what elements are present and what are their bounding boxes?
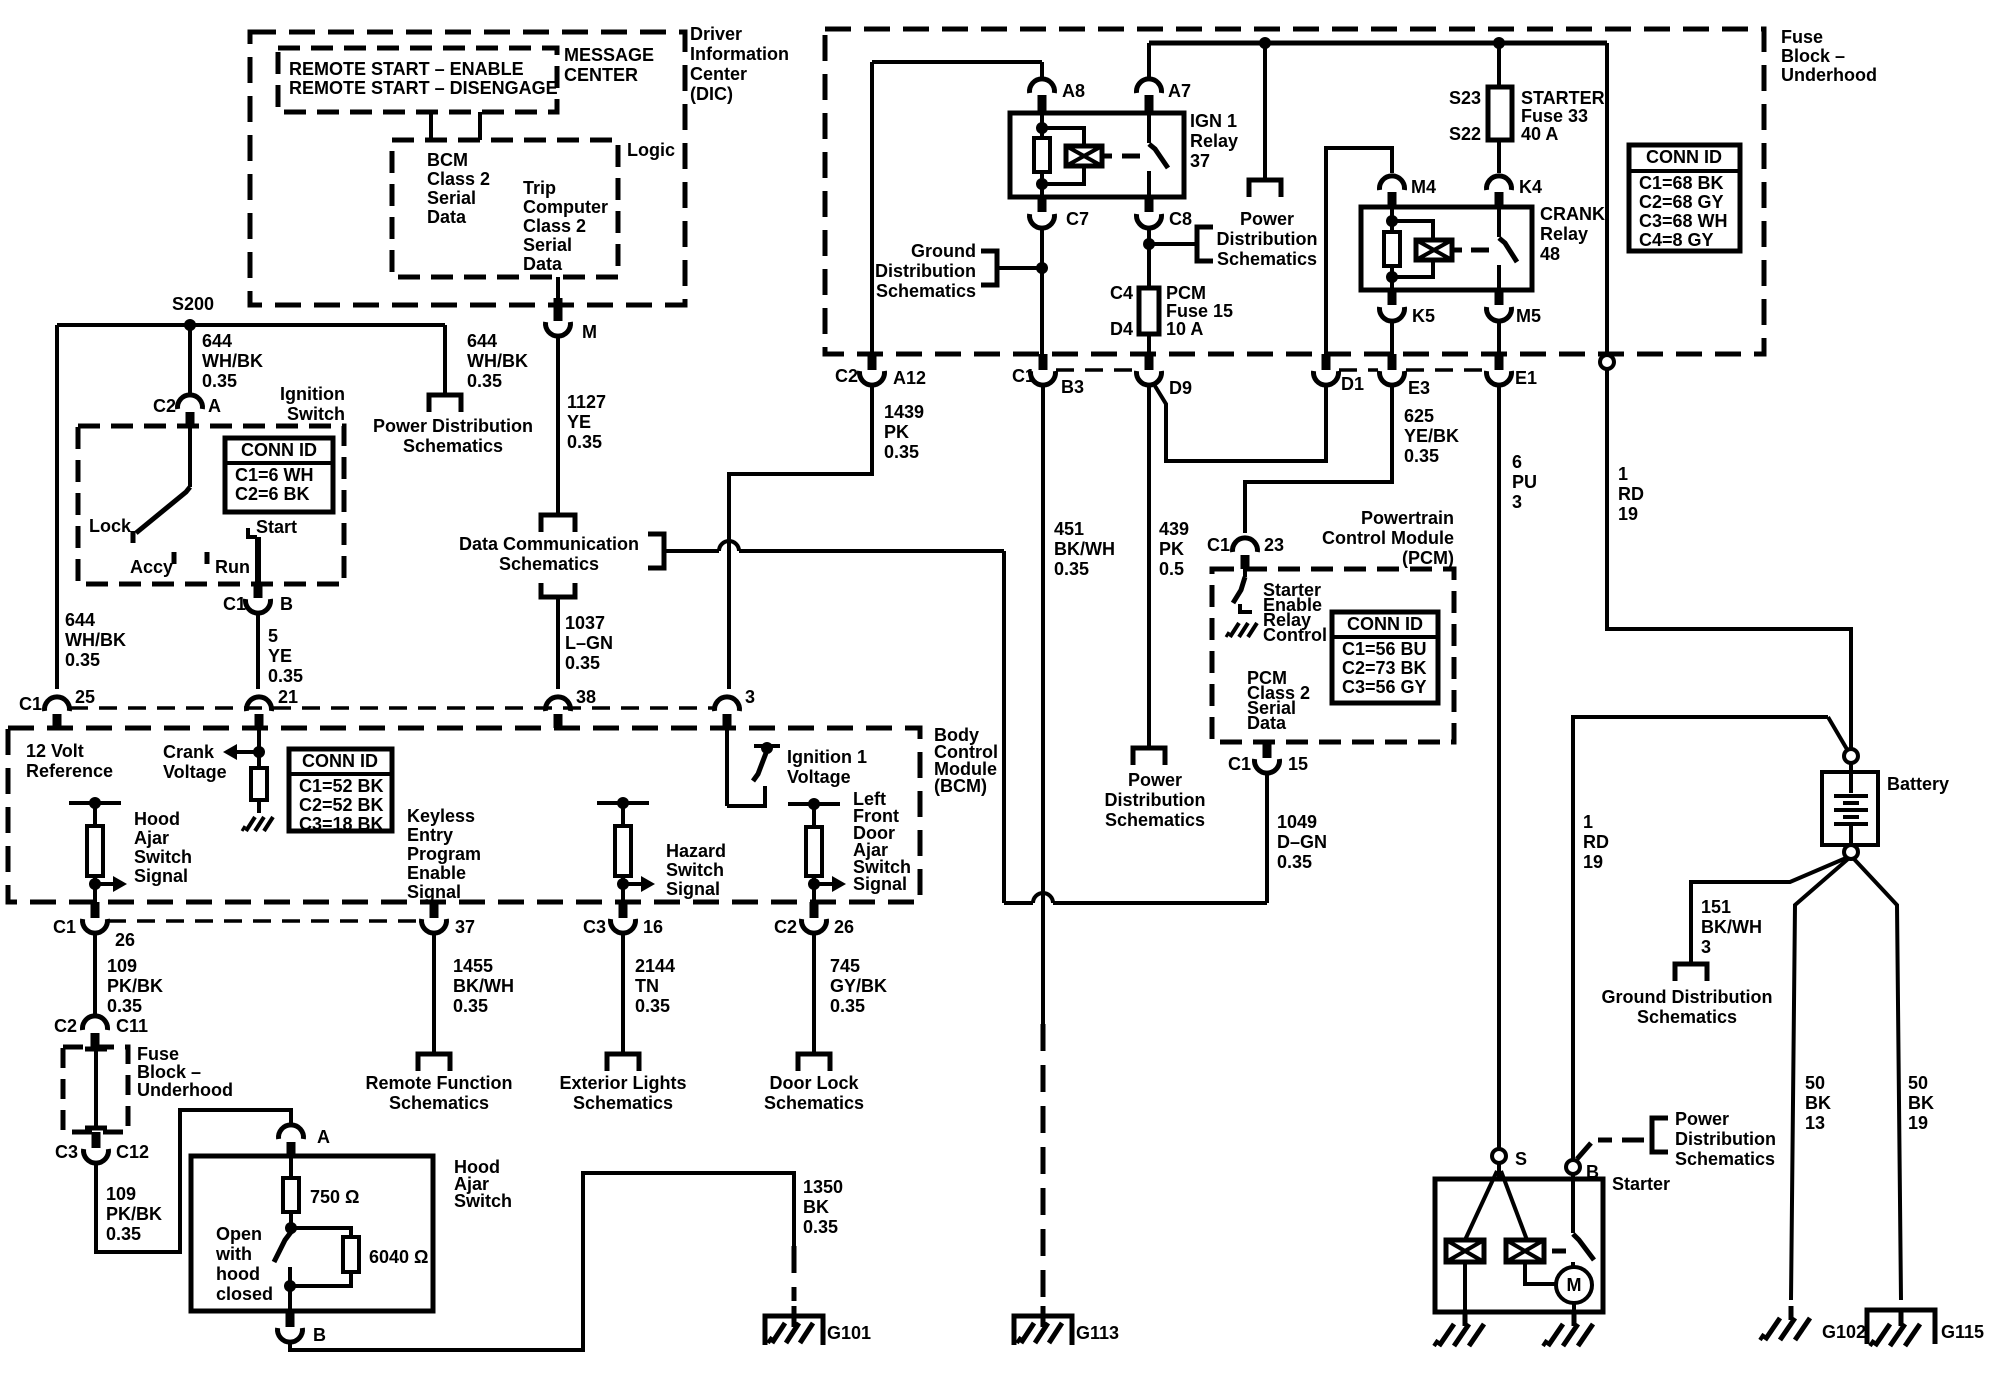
wire 1 RD left path to starter B — [1573, 717, 1828, 1160]
label 3 — [745, 687, 755, 707]
wire ignition switch common — [188, 426, 192, 487]
label A8 — [1062, 81, 1085, 101]
label 38 — [576, 687, 596, 707]
reference fork door lock — [798, 1054, 830, 1071]
label Powertrain Control Module PCM — [1322, 508, 1454, 568]
svg-text:12 Volt: 12 Volt — [26, 741, 84, 761]
hazard terminal bar — [597, 797, 649, 809]
svg-text:25: 25 — [75, 687, 95, 707]
svg-text:Ground Distribution: Ground Distribution — [1602, 987, 1773, 1007]
label Ground Distribution Schematics C7 — [875, 241, 976, 301]
label Door Lock Schematics — [764, 1073, 864, 1113]
wire ground dist ref — [997, 266, 1042, 270]
svg-text:G101: G101 — [827, 1323, 871, 1343]
svg-text:Voltage: Voltage — [163, 762, 227, 782]
svg-text:Run: Run — [215, 557, 250, 577]
reference dashes power dist starter — [1577, 1140, 1644, 1159]
ign1 link dash — [1122, 154, 1140, 159]
svg-text:Schematics: Schematics — [499, 554, 599, 574]
wire lf door internal lower — [812, 876, 816, 902]
label K5 — [1412, 306, 1435, 326]
connector row dashes BCM bottom — [108, 919, 421, 923]
label B starter — [1586, 1162, 1599, 1182]
label 644 WH/BK 0.35 at S200 — [202, 331, 263, 391]
connector C2 C11 entry — [83, 1016, 108, 1047]
label REMOTE START - DISENGAGE — [289, 78, 558, 98]
left front door terminal bar — [788, 798, 840, 810]
svg-text:Reference: Reference — [26, 761, 113, 781]
svg-text:644: 644 — [202, 331, 232, 351]
svg-text:PK/BK: PK/BK — [107, 976, 163, 996]
wire 745 GY/BK — [812, 935, 816, 1053]
svg-text:13: 13 — [1805, 1113, 1825, 1133]
svg-text:Schematics: Schematics — [403, 436, 503, 456]
battery cell plates — [1834, 763, 1868, 845]
svg-text:Signal: Signal — [134, 866, 188, 886]
wire ignition1 voltage from 3 — [725, 728, 729, 806]
wire class2 bus vertical — [1002, 551, 1006, 903]
svg-text:644: 644 — [65, 610, 95, 630]
resistor crank voltage — [251, 768, 267, 800]
reference fork power distribution schematics — [429, 395, 461, 412]
svg-text:B: B — [313, 1325, 326, 1345]
wire 644 WH/BK down to C1 25 — [55, 325, 59, 689]
label A hood — [317, 1127, 330, 1147]
label D4 — [1110, 319, 1133, 339]
connector row dashes BCM top — [70, 706, 714, 710]
svg-text:RD: RD — [1618, 484, 1644, 504]
ign1 coil branch — [1042, 128, 1084, 184]
hood switch lower contact — [284, 1267, 296, 1292]
connector A8 — [1030, 79, 1055, 113]
box REMOTE START message — [278, 48, 557, 112]
svg-text:0.35: 0.35 — [453, 996, 488, 1016]
wire 6 PU down to starter S — [1497, 386, 1501, 1149]
svg-text:C1=68 BK: C1=68 BK — [1639, 173, 1724, 193]
svg-text:A8: A8 — [1062, 81, 1085, 101]
wire A7 drop — [1147, 43, 1151, 77]
svg-text:Driver: Driver — [690, 24, 742, 44]
svg-text:Open: Open — [216, 1224, 262, 1244]
reference fork exterior lights — [607, 1054, 639, 1071]
svg-text:3: 3 — [1512, 492, 1522, 512]
hood ajar signal arrow — [89, 876, 127, 892]
connector row dashes fuse block D1-E3 — [1339, 368, 1378, 372]
component box Battery — [1822, 772, 1878, 845]
wire C7 to B3 — [1040, 230, 1044, 354]
label E1 — [1515, 368, 1537, 388]
connector C3 C12 exit — [84, 1132, 109, 1163]
wire S stub — [1497, 1163, 1501, 1179]
svg-text:S22: S22 — [1449, 124, 1481, 144]
crank link dash — [1471, 248, 1489, 253]
svg-text:1037: 1037 — [565, 613, 605, 633]
svg-text:G102: G102 — [1822, 1322, 1866, 1342]
bus wire fuse block top — [1149, 41, 1607, 46]
wire A8 feed horizontal — [872, 60, 1042, 64]
svg-text:439: 439 — [1159, 519, 1189, 539]
wire 1037 L-GN to BCM 38 — [556, 597, 560, 689]
connector C2 26 BCM exit — [802, 902, 827, 933]
svg-text:REMOTE START – ENABLE: REMOTE START – ENABLE — [289, 59, 524, 79]
svg-text:2144: 2144 — [635, 956, 675, 976]
crank link stub — [1452, 248, 1462, 253]
connector E3 — [1380, 354, 1405, 385]
reference fork data comm bottom — [541, 583, 575, 597]
svg-text:Schematics: Schematics — [876, 281, 976, 301]
connector M at DIC exit — [546, 298, 571, 336]
svg-text:0.35: 0.35 — [65, 650, 100, 670]
label Crank Voltage — [163, 742, 227, 782]
label S23 — [1449, 88, 1481, 108]
svg-text:Lock: Lock — [89, 516, 132, 536]
svg-text:0.35: 0.35 — [1054, 559, 1089, 579]
label Hazard Switch Signal — [666, 841, 726, 899]
label 50 BK 19 — [1908, 1073, 1934, 1133]
svg-text:Switch: Switch — [287, 404, 345, 424]
svg-text:Underhood: Underhood — [137, 1080, 233, 1100]
label 644 WH/BK 0.35 right — [467, 331, 528, 391]
wire 50 BK 13 to G102 — [1791, 859, 1848, 1300]
ignition1 voltage fixed bar — [754, 742, 780, 754]
ground crank voltage internal — [242, 817, 273, 831]
wire 644 WH/BK horizontal from left to power dist branch — [57, 323, 445, 327]
label C11 — [116, 1016, 148, 1036]
wire 1455 BK/WH — [432, 935, 436, 1053]
svg-text:Entry: Entry — [407, 825, 453, 845]
wire starter fuse feed — [1493, 37, 1505, 87]
svg-text:Power: Power — [1128, 770, 1182, 790]
wire 1439 PK path — [729, 386, 872, 689]
label 451 BK/WH 0.35 — [1054, 519, 1115, 579]
svg-text:WH/BK: WH/BK — [202, 351, 263, 371]
svg-text:Exterior Lights: Exterior Lights — [559, 1073, 686, 1093]
svg-text:C3=18 BK: C3=18 BK — [299, 814, 384, 834]
svg-text:1: 1 — [1583, 812, 1593, 832]
svg-text:B: B — [280, 594, 293, 614]
svg-text:C1: C1 — [19, 694, 42, 714]
svg-text:0.35: 0.35 — [565, 653, 600, 673]
svg-text:5: 5 — [268, 626, 278, 646]
starter motor feed — [1571, 1262, 1575, 1269]
wire 6040 branch — [291, 1228, 351, 1286]
label 6 PU 3 — [1512, 452, 1537, 512]
label 745 GY/BK 0.35 — [830, 956, 887, 1016]
svg-text:745: 745 — [830, 956, 860, 976]
svg-text:Power: Power — [1675, 1109, 1729, 1129]
starter ground left — [1434, 1312, 1484, 1346]
svg-text:C2: C2 — [835, 366, 858, 386]
connector row dashes fuse block E3-E1 — [1406, 368, 1486, 372]
resistor hazard signal — [615, 826, 631, 876]
label C12 — [116, 1142, 149, 1162]
label 37 — [455, 917, 475, 937]
connector B hood ajar exit — [278, 1311, 303, 1342]
starter solenoid1 to ground — [1463, 1262, 1467, 1312]
label Hood Ajar Switch — [454, 1157, 512, 1211]
svg-text:6040 Ω: 6040 Ω — [369, 1247, 428, 1267]
ground G115 bracket — [1867, 1310, 1935, 1346]
label A7 — [1168, 81, 1191, 101]
crank voltage arrow — [223, 744, 265, 760]
reference fork remote function — [418, 1054, 450, 1071]
connector K4 — [1487, 176, 1512, 207]
conn id box PCM — [1332, 612, 1438, 703]
svg-text:Fuse 33: Fuse 33 — [1521, 106, 1588, 126]
svg-text:Accy: Accy — [130, 557, 173, 577]
label Open with hood closed — [215, 1224, 273, 1304]
relay box IGN 1 — [1010, 113, 1184, 197]
svg-text:BK: BK — [803, 1197, 829, 1217]
label 26 — [115, 930, 135, 950]
starter ground right — [1543, 1312, 1593, 1346]
reference bracket power distribution C8 — [1197, 227, 1213, 261]
svg-text:CONN ID: CONN ID — [241, 440, 317, 460]
label Fuse Block Underhood — [1781, 27, 1877, 85]
hood ajar switch signal terminal bar — [69, 797, 121, 809]
label 23 — [1264, 535, 1284, 555]
label 26b — [834, 917, 854, 937]
svg-text:C2: C2 — [54, 1016, 77, 1036]
label 1127 YE 0.35 — [567, 392, 606, 452]
label CRANK Relay 48 — [1540, 204, 1605, 264]
label C2 at A12 — [835, 366, 858, 386]
connector C1 B ignition switch exit — [246, 584, 271, 613]
label Fuse Block Underhood small — [137, 1044, 233, 1100]
svg-text:YE: YE — [268, 646, 292, 666]
label 12 Volt Reference — [26, 741, 113, 781]
label A — [208, 396, 221, 416]
svg-text:3: 3 — [745, 687, 755, 707]
starter link dash — [1552, 1249, 1566, 1254]
label C7 — [1066, 209, 1089, 229]
ignition1 voltage contact L — [727, 786, 765, 806]
wire crank voltage to ground — [257, 800, 261, 813]
svg-text:Schematics: Schematics — [389, 1093, 489, 1113]
svg-text:Hood: Hood — [134, 809, 180, 829]
wire PCM fuse to D9 — [1147, 334, 1151, 354]
wire power dist fork from bus — [1259, 37, 1271, 180]
label Power Distribution Schematics starter — [1675, 1109, 1776, 1169]
svg-text:C11: C11 — [116, 1016, 148, 1036]
svg-text:C2=6 BK: C2=6 BK — [235, 484, 310, 504]
svg-text:C2=68 GY: C2=68 GY — [1639, 192, 1724, 212]
svg-text:PU: PU — [1512, 472, 1537, 492]
label 750 ohm — [310, 1187, 359, 1207]
svg-text:10 A: 10 A — [1166, 319, 1203, 339]
svg-text:TN: TN — [635, 976, 659, 996]
svg-text:Underhood: Underhood — [1781, 65, 1877, 85]
connector D9 — [1137, 354, 1162, 385]
svg-text:S: S — [1515, 1149, 1527, 1169]
ign1 coil junction top — [1036, 113, 1048, 138]
wire A8 drop — [1040, 62, 1044, 77]
relay box CRANK — [1361, 207, 1532, 290]
resistor crank coil parallel — [1384, 232, 1400, 266]
svg-text:Power Distribution: Power Distribution — [373, 416, 533, 436]
wire message to logic left — [429, 112, 433, 140]
svg-text:0.35: 0.35 — [635, 996, 670, 1016]
svg-text:Distribution: Distribution — [1217, 229, 1318, 249]
svg-text:C1: C1 — [53, 917, 76, 937]
svg-text:Information: Information — [690, 44, 789, 64]
label M5 — [1516, 306, 1541, 326]
reference fork power distribution bus — [1249, 180, 1281, 197]
svg-text:0.35: 0.35 — [567, 432, 602, 452]
ground G101 — [765, 1306, 823, 1345]
svg-text:Start: Start — [256, 517, 297, 537]
svg-text:Ignition: Ignition — [280, 384, 345, 404]
resistor hood ajar signal — [87, 826, 103, 876]
label E3 — [1408, 378, 1430, 398]
connector C1 23 PCM entry — [1233, 538, 1258, 569]
svg-text:1049: 1049 — [1277, 812, 1317, 832]
svg-text:Data: Data — [427, 207, 467, 227]
label Trip Computer Class 2 Serial Data — [523, 178, 608, 274]
hop over 451 BK/WH — [1033, 893, 1053, 903]
svg-text:1439: 1439 — [884, 402, 924, 422]
label REMOTE START - ENABLE — [289, 59, 524, 79]
label 109 PK/BK 0.35 lower — [106, 1184, 162, 1244]
wire start to C1 B — [255, 537, 261, 584]
svg-text:Schematics: Schematics — [764, 1093, 864, 1113]
svg-text:Relay: Relay — [1190, 131, 1238, 151]
label 2144 TN 0.35 — [635, 956, 675, 1016]
label Ignition 1 Voltage — [787, 747, 867, 787]
terminal circle fuse block right — [1600, 355, 1614, 369]
svg-text:Enable: Enable — [407, 863, 466, 883]
svg-text:Serial: Serial — [523, 235, 572, 255]
ground starter enable internal — [1226, 623, 1257, 637]
label C1 at B3 — [1012, 366, 1035, 386]
label 15 — [1288, 754, 1308, 774]
label 644 WH/BK 0.35 left — [65, 610, 126, 670]
svg-text:0.35: 0.35 — [830, 996, 865, 1016]
module box Powertrain Control Module — [1212, 569, 1454, 742]
svg-text:23: 23 — [1264, 535, 1284, 555]
svg-text:Block –: Block – — [1781, 46, 1845, 66]
svg-text:0.35: 0.35 — [803, 1217, 838, 1237]
label 25 — [75, 687, 95, 707]
wire hood ajar A to 750 — [289, 1156, 293, 1178]
svg-text:Schematics: Schematics — [1217, 249, 1317, 269]
connector 37 BCM exit — [422, 902, 447, 933]
svg-text:BK/WH: BK/WH — [1054, 539, 1115, 559]
label 1 RD 19 left — [1583, 812, 1609, 872]
svg-text:15: 15 — [1288, 754, 1308, 774]
svg-text:C1=6 WH: C1=6 WH — [235, 465, 314, 485]
label 5 YE 0.35 — [268, 626, 303, 686]
ign1 switch blade — [1149, 144, 1168, 168]
svg-text:CENTER: CENTER — [564, 65, 638, 85]
terminal circle B — [1566, 1160, 1580, 1174]
svg-text:M5: M5 — [1516, 306, 1541, 326]
svg-text:Schematics: Schematics — [1637, 1007, 1737, 1027]
wire hazard internal lower — [621, 876, 625, 902]
svg-text:0.35: 0.35 — [107, 996, 142, 1016]
svg-text:IGN 1: IGN 1 — [1190, 111, 1237, 131]
connector M5 — [1487, 290, 1512, 321]
svg-text:C8: C8 — [1169, 209, 1192, 229]
svg-text:26: 26 — [115, 930, 135, 950]
wire hood ajar internal lower — [93, 876, 97, 902]
reference fork ground distribution battery — [1675, 964, 1707, 981]
wire 1127 YE to data comm box — [556, 338, 560, 515]
label S22 — [1449, 124, 1481, 144]
svg-text:C3: C3 — [583, 917, 606, 937]
svg-text:Signal: Signal — [853, 874, 907, 894]
label D1 — [1341, 374, 1364, 394]
component box Hood Ajar Switch — [191, 1156, 433, 1311]
ign1 switch lower contact — [1147, 171, 1151, 197]
svg-text:Ajar: Ajar — [134, 828, 169, 848]
svg-text:BK: BK — [1908, 1093, 1934, 1113]
svg-text:A12: A12 — [893, 368, 926, 388]
starter motor M — [1556, 1267, 1592, 1303]
svg-text:Control Module: Control Module — [1322, 528, 1454, 548]
connector C3 16 BCM exit — [611, 902, 636, 933]
label 1350 BK 0.35 — [803, 1177, 843, 1237]
svg-text:0.35: 0.35 — [1277, 852, 1312, 872]
ign1 coil junction bottom — [1036, 172, 1048, 197]
svg-text:with: with — [215, 1244, 252, 1264]
connector 3 BCM entry — [715, 697, 740, 728]
connector row dashes fuse block B3-D9 — [1056, 368, 1136, 372]
starter enable relay contact — [1240, 604, 1252, 612]
svg-text:451: 451 — [1054, 519, 1084, 539]
svg-text:Center: Center — [690, 64, 747, 84]
start contact — [248, 528, 257, 537]
label Starter — [1612, 1174, 1670, 1194]
svg-text:BK/WH: BK/WH — [453, 976, 514, 996]
svg-text:GY/BK: GY/BK — [830, 976, 887, 996]
crank switch lower contact — [1497, 265, 1501, 290]
wire hood switch to B — [288, 1286, 292, 1311]
label 1455 BK/WH 0.35 — [453, 956, 514, 1016]
svg-text:Switch: Switch — [134, 847, 192, 867]
ign1 link stub — [1102, 154, 1112, 159]
svg-text:109: 109 — [106, 1184, 136, 1204]
svg-text:C3=56 GY: C3=56 GY — [1342, 677, 1427, 697]
svg-text:Data: Data — [523, 254, 563, 274]
label Remote Function Schematics — [366, 1073, 513, 1113]
wire 1049 horizontal left segment — [1004, 901, 1033, 905]
wire 439 PK down — [1147, 386, 1151, 748]
svg-text:Schematics: Schematics — [1675, 1149, 1775, 1169]
label A12 — [893, 368, 926, 388]
module box Body Control Module (BCM) — [8, 728, 920, 902]
svg-text:BK: BK — [1805, 1093, 1831, 1113]
svg-text:40 A: 40 A — [1521, 124, 1558, 144]
svg-text:G113: G113 — [1076, 1323, 1119, 1343]
svg-text:Fuse 15: Fuse 15 — [1166, 301, 1233, 321]
svg-text:BCM: BCM — [427, 150, 468, 170]
connector C8 — [1137, 197, 1162, 228]
wire class2 bus horizontal right segment — [739, 549, 1004, 553]
svg-text:19: 19 — [1583, 852, 1603, 872]
fuse PCM Fuse 15 — [1139, 288, 1159, 334]
connector 21 BCM entry — [247, 697, 272, 728]
svg-text:26: 26 — [834, 917, 854, 937]
label S — [1515, 1149, 1527, 1169]
label Starter Enable Relay Control — [1263, 580, 1327, 645]
svg-text:37: 37 — [1190, 151, 1210, 171]
ign1 switch top contact — [1147, 113, 1151, 143]
tick run contact — [205, 552, 210, 564]
svg-text:D9: D9 — [1169, 378, 1192, 398]
label G102 — [1822, 1322, 1866, 1342]
wire M5 to E1 — [1497, 323, 1501, 354]
